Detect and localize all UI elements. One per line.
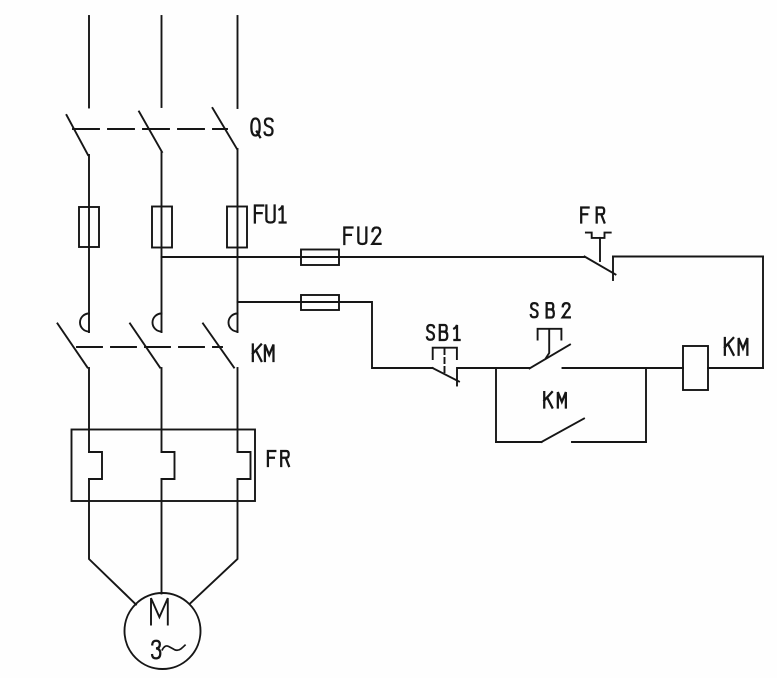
wire L2 to motor xyxy=(161,479,163,594)
fuse FU1 phase 2 xyxy=(152,207,172,248)
FR contact stem xyxy=(599,238,601,261)
motor M circle xyxy=(125,593,201,669)
contact KM aux blade NO xyxy=(542,419,585,443)
label FU2 xyxy=(344,228,380,245)
label KM aux contact xyxy=(544,392,566,407)
wire L3 mid xyxy=(237,149,239,332)
thermal relay FR box xyxy=(72,430,256,502)
wire KM aux bottom left xyxy=(496,441,542,443)
wire L3 below KM xyxy=(237,368,239,452)
switch QS pole 2 blade xyxy=(139,112,162,153)
button SB1 actuator xyxy=(433,348,457,359)
FR contact blade xyxy=(585,257,616,275)
label KM main contacts xyxy=(253,345,274,362)
button SB1 stem dashed xyxy=(444,349,446,374)
switch QS pole 3 blade xyxy=(213,108,238,149)
contactor KM pole 1 blade xyxy=(58,324,88,368)
contactor KM pole 2 blade xyxy=(130,324,160,368)
switch QS pole 1 blade xyxy=(67,115,89,155)
FR heater phase 1 xyxy=(89,452,102,479)
fuse FU1 phase 3 xyxy=(227,207,247,248)
contactor KM linkage dashed xyxy=(77,346,222,348)
contactor KM pole 3 arc xyxy=(229,314,238,332)
FR heater phase 3 xyxy=(238,452,251,479)
button SB2 blade NO xyxy=(530,345,571,369)
wire KM aux bottom right xyxy=(572,441,646,443)
wire control tap lower: L3 to SB1 xyxy=(238,302,433,368)
label QS xyxy=(251,119,272,138)
contactor KM pole 3 blade xyxy=(203,324,234,368)
wire L1 below KM xyxy=(88,368,90,452)
button SB2 actuator xyxy=(538,329,562,340)
wire control tap upper: L2 to FR contact xyxy=(162,256,585,258)
fuse FU2 upper xyxy=(301,250,339,266)
switch QS linkage dashed xyxy=(73,128,227,130)
FR contact fixed stub xyxy=(612,257,614,281)
wire KM aux branch right xyxy=(645,368,647,442)
label FR NC contact xyxy=(581,208,604,223)
wire L2 supply top xyxy=(161,16,163,107)
wire L1 supply top xyxy=(88,16,90,108)
button SB1 blade NC xyxy=(433,368,460,382)
label 3 motor phases xyxy=(152,641,160,659)
contactor KM pole 2 arc xyxy=(153,314,162,332)
wire rail to coil xyxy=(708,367,763,369)
button SB1 fixed stub xyxy=(456,368,458,386)
wire L1 to motor xyxy=(89,479,136,605)
wire L2 mid xyxy=(161,152,163,332)
fuse FU1 phase 1 xyxy=(79,207,99,247)
wire L3 to motor xyxy=(190,479,238,604)
FR heater phase 2 xyxy=(162,452,175,479)
label M motor xyxy=(151,598,168,624)
label SB1 xyxy=(427,325,460,340)
wire L2 below KM xyxy=(161,368,163,452)
wire L1 mid xyxy=(88,155,90,332)
wire L3 supply top xyxy=(237,16,239,108)
label FR overload relay xyxy=(268,451,289,466)
label SB2 xyxy=(531,303,570,317)
button SB2 stem xyxy=(546,329,549,358)
wire FR contact to right rail xyxy=(613,256,763,258)
coil KM xyxy=(683,346,708,390)
label FU1 xyxy=(255,206,286,223)
tilde of 3~ xyxy=(162,645,185,650)
contactor KM pole 1 arc xyxy=(80,314,89,332)
fuse FU2 lower xyxy=(301,295,339,310)
label KM coil xyxy=(725,338,748,355)
wire right rail xyxy=(762,257,764,369)
wire SB1 to SB2 xyxy=(458,367,530,369)
wire SB2 to coil xyxy=(563,367,684,369)
FR release symbol hooked bar xyxy=(586,233,611,238)
wire KM aux branch left xyxy=(495,368,497,442)
